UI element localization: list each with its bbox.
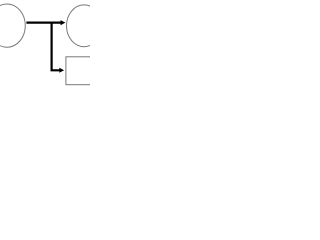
ellipse node right [67, 5, 102, 47]
arrow left ellipse to right ellipse [26, 20, 65, 25]
rectangle node [66, 57, 92, 85]
arrow branch down to rectangle [52, 22, 65, 73]
ellipse node left [0, 4, 25, 47]
